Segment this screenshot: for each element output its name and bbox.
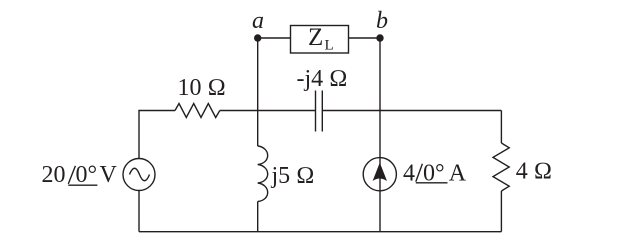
- wire: node a vertical from node a down to inductor: [257, 38, 259, 146]
- wire: top wire node a to ZL box: [258, 37, 291, 39]
- voltage source sine symbol: [130, 168, 150, 181]
- svg-text:j5 Ω: j5 Ω: [271, 163, 315, 189]
- wire: 4ohm resistor to bottom rail: [500, 191, 502, 232]
- svg-text:Z: Z: [308, 24, 323, 51]
- svg-text:0°: 0°: [76, 162, 98, 188]
- resistor R 10ohm zigzag: [175, 104, 220, 118]
- svg-text:-j4 Ω: -j4 Ω: [297, 66, 348, 92]
- wire: node a vertical from inductor to bottom rail: [257, 202, 259, 232]
- wire: ZL box to node b: [349, 37, 381, 39]
- capacitor C -j4ohm plates: [315, 91, 317, 132]
- svg-text:20: 20: [42, 162, 66, 188]
- node b junction dot: [376, 34, 383, 41]
- resistor R 4ohm vertical zigzag: [493, 143, 509, 191]
- wire: bottom rail: [139, 231, 501, 233]
- wire: main horizontal from capacitor right plate to right rail: [322, 110, 501, 112]
- current source arrow head: [373, 163, 387, 181]
- svg-text:10 Ω: 10 Ω: [178, 75, 226, 101]
- svg-text:4 Ω: 4 Ω: [516, 158, 552, 184]
- svg-text:V: V: [100, 162, 118, 188]
- inductor L j5ohm coil: [258, 146, 268, 202]
- impedance box ZL: [291, 26, 349, 54]
- wire: top-left rail from voltage source up to main horizontal: [139, 111, 175, 159]
- label 20 angle 0 V: [42, 162, 118, 188]
- voltage source VS circle: [123, 159, 155, 191]
- wire: main horizontal from resistor to capacitor left plate: [220, 110, 316, 112]
- svg-text:A: A: [449, 161, 467, 187]
- svg-text:L: L: [325, 38, 334, 54]
- current source IS circle: [363, 158, 396, 191]
- wire: node b vertical through current source: [379, 38, 381, 232]
- wire: voltage source bottom to bottom rail: [138, 191, 140, 232]
- svg-text:4: 4: [403, 161, 415, 187]
- svg-text:b: b: [376, 8, 388, 34]
- label 4 angle 0 A: [403, 161, 467, 187]
- node a junction dot: [254, 34, 261, 41]
- wire: right rail top to 4ohm resistor: [500, 111, 502, 144]
- svg-text:a: a: [252, 8, 264, 34]
